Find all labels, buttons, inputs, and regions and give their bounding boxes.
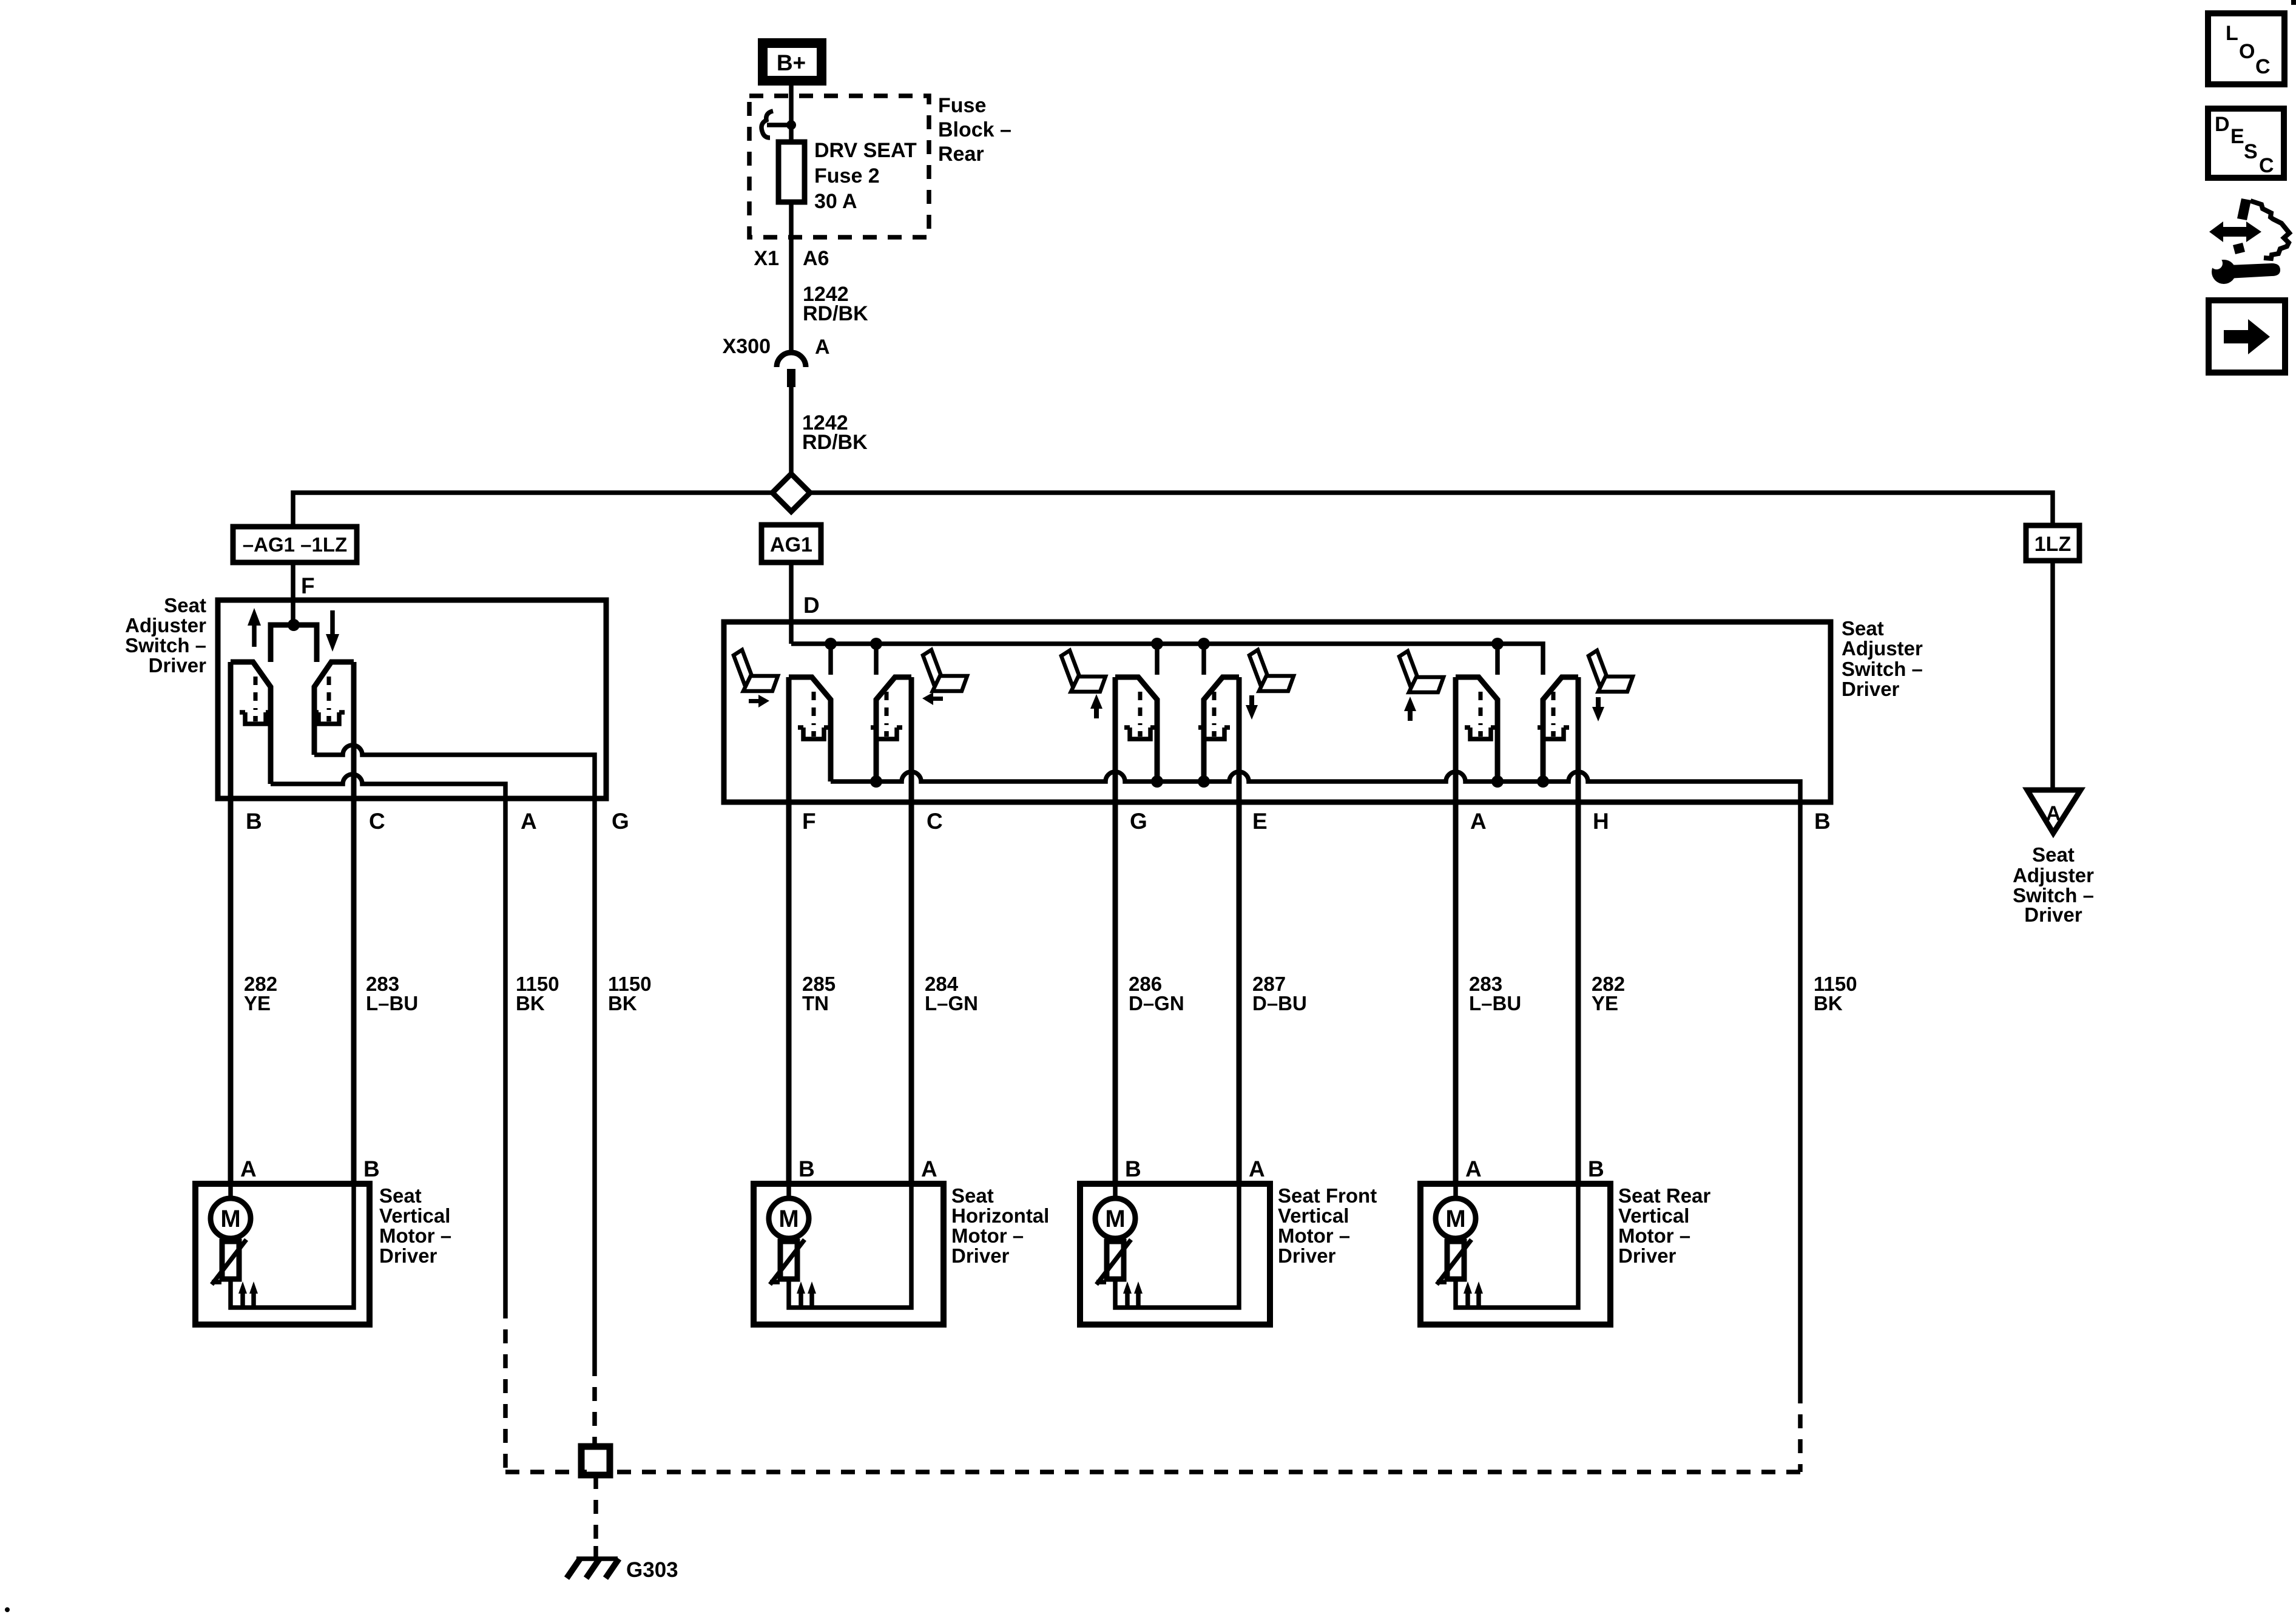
motor M1 Seat Vertical Motor - Driver bbox=[195, 1156, 380, 1325]
svg-text:L–BU: L–BU bbox=[1469, 992, 1521, 1014]
wire label 286 D-GN bbox=[1129, 973, 1184, 1014]
svg-text:E: E bbox=[2230, 125, 2244, 148]
svg-text:F: F bbox=[301, 573, 315, 598]
seat icon front up bbox=[1061, 650, 1106, 692]
svg-text:C: C bbox=[2255, 55, 2271, 78]
up arrow bbox=[248, 608, 261, 647]
svg-text:Driver: Driver bbox=[1278, 1244, 1336, 1267]
svg-text:RD/BK: RD/BK bbox=[802, 431, 868, 454]
svg-text:A: A bbox=[1465, 1156, 1482, 1181]
inline connector X300 pin A bbox=[723, 335, 830, 387]
wire B+ to fuse bbox=[789, 86, 794, 142]
wire pin A dashed to ground bus bbox=[503, 1305, 508, 1472]
svg-text:Seat: Seat bbox=[164, 594, 206, 616]
wire pin F to motor M2 bbox=[786, 677, 792, 1184]
svg-text:E: E bbox=[1252, 809, 1268, 834]
page corner mark bbox=[2291, 0, 2296, 5]
svg-text:Switch –: Switch – bbox=[1842, 658, 1923, 680]
main feed bus wire bbox=[293, 493, 2053, 527]
ground splice box bbox=[581, 1447, 610, 1475]
movable contact drops bbox=[831, 644, 1497, 675]
connector -AG1 -1LZ bbox=[233, 527, 357, 562]
icon adjust hook bbox=[2233, 243, 2245, 254]
battery terminal B+ bbox=[763, 43, 822, 81]
svg-text:B: B bbox=[799, 1156, 815, 1181]
svg-text:Fuse: Fuse bbox=[938, 94, 986, 117]
svg-text:C: C bbox=[2259, 154, 2274, 177]
down arrow bbox=[326, 610, 339, 652]
svg-text:Adjuster: Adjuster bbox=[1842, 637, 1923, 660]
switch contact A (pentagon) bbox=[1456, 677, 1497, 781]
svg-text:B: B bbox=[246, 809, 262, 834]
wire pin G dashed to ground bus bbox=[592, 1362, 597, 1463]
svg-text:BK: BK bbox=[516, 992, 545, 1014]
connector label X1 A6 bbox=[754, 247, 829, 270]
svg-text:Seat: Seat bbox=[2032, 843, 2075, 866]
seat icon front down bbox=[1249, 650, 1294, 691]
switch contact down (pentagon) bbox=[314, 662, 354, 755]
seat icon forward bbox=[734, 650, 778, 691]
svg-text:Motor –: Motor – bbox=[379, 1224, 451, 1247]
label Fuse Block - Rear bbox=[938, 94, 1011, 166]
left switch box outline bbox=[218, 600, 606, 798]
dashed wire A to splice bbox=[505, 1470, 587, 1474]
svg-text:Motor –: Motor – bbox=[951, 1224, 1024, 1247]
switch contact H (pentagon) bbox=[1543, 677, 1578, 781]
switch contact F (pentagon) bbox=[789, 677, 831, 781]
svg-text:A: A bbox=[815, 336, 830, 359]
wire pin E to motor M3 bbox=[1237, 677, 1242, 1184]
seat icon rear down bbox=[1589, 650, 1633, 692]
svg-text:C: C bbox=[927, 809, 943, 834]
wire fuse to connector X300 bbox=[789, 202, 794, 353]
off-page triangle pin A bbox=[2027, 790, 2081, 833]
wire label 1150 BK bbox=[1814, 973, 1857, 1014]
svg-text:Motor –: Motor – bbox=[1278, 1224, 1350, 1247]
svg-text:X1: X1 bbox=[754, 247, 779, 270]
wire label 283 L-BU bbox=[1469, 973, 1521, 1014]
svg-text:AG1: AG1 bbox=[770, 533, 812, 556]
svg-text:Fuse 2: Fuse 2 bbox=[814, 164, 880, 187]
svg-text:Switch –: Switch – bbox=[125, 634, 206, 657]
wire label 282 YE bbox=[244, 973, 277, 1014]
wire pin B dashed to ground bus bbox=[604, 1389, 1800, 1472]
svg-text:Driver: Driver bbox=[149, 654, 207, 677]
svg-text:BK: BK bbox=[608, 992, 637, 1014]
svg-text:Seat Front: Seat Front bbox=[1278, 1184, 1377, 1207]
svg-text:Adjuster: Adjuster bbox=[2013, 864, 2094, 886]
switch common prongs bbox=[271, 625, 317, 662]
fuse DRV SEAT Fuse 2 30 A bbox=[778, 142, 805, 202]
svg-text:L: L bbox=[2226, 22, 2238, 45]
svg-text:L–BU: L–BU bbox=[366, 992, 418, 1014]
svg-text:B: B bbox=[1125, 1156, 1141, 1181]
svg-text:G: G bbox=[612, 809, 629, 834]
svg-text:Seat: Seat bbox=[379, 1184, 422, 1207]
junction dot F bbox=[288, 619, 300, 631]
svg-text:Seat: Seat bbox=[951, 1184, 994, 1207]
switch contact up (pentagon) bbox=[231, 662, 271, 784]
label Seat Adjuster Switch - Driver (right of box) bbox=[1842, 617, 1923, 700]
svg-text:Driver: Driver bbox=[951, 1244, 1010, 1267]
motor M3 Seat Front Vertical Motor - Driver bbox=[1080, 1156, 1270, 1325]
wire label 1150 BK bbox=[516, 973, 559, 1014]
icon adjust double arrow bbox=[2209, 221, 2261, 242]
icon adjust bar bbox=[2237, 198, 2251, 220]
wire pin A to motor M4 bbox=[1453, 677, 1459, 1184]
fuse clip hook bbox=[761, 111, 773, 138]
svg-text:D–BU: D–BU bbox=[1252, 992, 1307, 1014]
connector AG1 bbox=[761, 525, 821, 562]
wire label 284 L-GN bbox=[925, 973, 978, 1014]
icon LOC bbox=[2208, 13, 2284, 84]
seat icon rearward bbox=[923, 650, 967, 691]
wire F into left switch bbox=[291, 562, 295, 625]
wire label 1242 RD/BK bbox=[802, 411, 868, 454]
seat icon rear up bbox=[1399, 651, 1443, 692]
arrow right bbox=[749, 695, 769, 707]
svg-text:Driver: Driver bbox=[1842, 678, 1900, 700]
contact cup bbox=[313, 712, 345, 724]
svg-text:A: A bbox=[2046, 802, 2061, 825]
svg-text:1LZ: 1LZ bbox=[2034, 533, 2071, 556]
wire X300 to splice bbox=[789, 387, 794, 474]
svg-text:Seat Rear: Seat Rear bbox=[1618, 1184, 1710, 1207]
arrow down bbox=[1246, 695, 1258, 720]
svg-text:D: D bbox=[803, 593, 820, 618]
svg-text:TN: TN bbox=[802, 992, 829, 1014]
svg-text:F: F bbox=[802, 809, 816, 834]
svg-text:B: B bbox=[1588, 1156, 1604, 1181]
svg-text:Vertical: Vertical bbox=[1278, 1204, 1349, 1227]
wire pin C to motor M2 bbox=[909, 677, 914, 1184]
svg-text:L–GN: L–GN bbox=[925, 992, 978, 1014]
svg-text:Adjuster: Adjuster bbox=[125, 614, 206, 636]
pin letters F C G E A H B bbox=[802, 809, 1831, 834]
svg-text:A: A bbox=[921, 1156, 937, 1181]
motor M2 Seat Horizontal Motor - Driver bbox=[754, 1156, 944, 1325]
wire pin G to motor M3 bbox=[1113, 677, 1118, 1184]
icon DESC bbox=[2208, 109, 2284, 178]
svg-text:G303: G303 bbox=[626, 1558, 678, 1582]
wire 1LZ to off-page bbox=[2050, 561, 2055, 790]
wire pin H to motor M4 bbox=[1576, 677, 1581, 1184]
label Seat Adjuster Switch - Driver (left) bbox=[125, 594, 206, 677]
svg-text:YE: YE bbox=[1592, 992, 1618, 1014]
wire pin B to motor bbox=[228, 662, 234, 1184]
icon wrench bbox=[2206, 254, 2280, 284]
svg-text:B: B bbox=[363, 1156, 380, 1181]
svg-text:G: G bbox=[1130, 809, 1147, 834]
junction dots on feed bus bbox=[825, 638, 837, 650]
svg-text:Driver: Driver bbox=[379, 1244, 437, 1267]
motor M4 Seat Rear Vertical Motor - Driver bbox=[1420, 1156, 1610, 1325]
ground symbol G303 bbox=[567, 1558, 678, 1582]
svg-text:Vertical: Vertical bbox=[379, 1204, 450, 1227]
svg-text:–AG1 –1LZ: –AG1 –1LZ bbox=[243, 533, 347, 556]
wire label 287 D-BU bbox=[1252, 973, 1307, 1014]
wire label 283 L-BU bbox=[366, 973, 418, 1014]
svg-text:S: S bbox=[2244, 140, 2258, 163]
switch return bus with hops to pin B bbox=[831, 772, 1800, 1389]
arrow down bbox=[1592, 697, 1604, 721]
arrow up bbox=[1404, 697, 1416, 721]
svg-text:B: B bbox=[1814, 809, 1831, 834]
splice diamond S354 bbox=[772, 474, 810, 511]
svg-text:H: H bbox=[1593, 809, 1609, 834]
svg-text:A: A bbox=[1470, 809, 1487, 834]
wire label 282 YE bbox=[1592, 973, 1625, 1014]
fuse block rear dashed box bbox=[749, 96, 929, 237]
label Seat Front Vertical Motor - Driver bbox=[1278, 1184, 1377, 1267]
svg-text:RD/BK: RD/BK bbox=[803, 302, 868, 325]
wire label 1150 BK bbox=[608, 973, 652, 1014]
svg-text:A: A bbox=[240, 1156, 257, 1181]
switch contact G (pentagon) bbox=[1115, 677, 1157, 781]
dashed wire splice to ground bbox=[593, 1475, 598, 1546]
contact cup bbox=[240, 712, 271, 724]
svg-text:Motor –: Motor – bbox=[1618, 1224, 1690, 1247]
label Seat Vertical Motor - Driver bbox=[379, 1184, 451, 1267]
center switch box outline bbox=[724, 622, 1831, 802]
fuse clip bar bbox=[767, 123, 791, 127]
wire label 1242 RD/BK bbox=[803, 283, 868, 325]
svg-text:30 A: 30 A bbox=[814, 190, 857, 213]
svg-text:C: C bbox=[369, 809, 385, 834]
svg-text:M: M bbox=[1105, 1206, 1125, 1232]
pin letters B C A G bbox=[246, 809, 629, 834]
icon adjust panel outline bbox=[2250, 201, 2289, 258]
svg-text:Horizontal: Horizontal bbox=[951, 1204, 1049, 1227]
svg-text:Seat: Seat bbox=[1842, 617, 1884, 640]
wire AG1 to center switch bbox=[789, 562, 794, 644]
svg-text:Driver: Driver bbox=[2024, 903, 2082, 926]
svg-text:A: A bbox=[1249, 1156, 1265, 1181]
label DRV SEAT Fuse 2 30 A bbox=[814, 139, 917, 213]
icon next arrow box bbox=[2209, 300, 2285, 373]
svg-text:D–GN: D–GN bbox=[1129, 992, 1184, 1014]
svg-text:YE: YE bbox=[244, 992, 271, 1014]
label Seat Adjuster Switch - Driver (right bottom) bbox=[2013, 843, 2094, 926]
connector 1LZ bbox=[2026, 525, 2079, 561]
svg-text:M: M bbox=[220, 1206, 240, 1232]
svg-text:X300: X300 bbox=[723, 335, 771, 358]
svg-text:M: M bbox=[778, 1206, 799, 1232]
svg-text:A6: A6 bbox=[803, 247, 829, 270]
wire pin C to motor bbox=[351, 662, 357, 1184]
label Seat Horizontal Motor - Driver bbox=[951, 1184, 1049, 1267]
svg-text:Rear: Rear bbox=[938, 143, 984, 166]
svg-text:A: A bbox=[521, 809, 537, 834]
wire contact to pin A with hop bbox=[271, 774, 505, 1305]
svg-text:DRV SEAT: DRV SEAT bbox=[814, 139, 917, 162]
label Seat Rear Vertical Motor - Driver bbox=[1618, 1184, 1710, 1267]
svg-text:Driver: Driver bbox=[1618, 1244, 1676, 1267]
contact dashes bbox=[327, 677, 331, 710]
wire label 285 TN bbox=[802, 973, 836, 1014]
junction dots on return bus bbox=[870, 775, 882, 788]
arrow up bbox=[1090, 694, 1102, 718]
switch contact C (pentagon) bbox=[876, 677, 911, 781]
svg-text:BK: BK bbox=[1814, 992, 1843, 1014]
switch contact E (pentagon) bbox=[1204, 677, 1239, 781]
contact dashes bbox=[254, 677, 258, 710]
svg-text:B+: B+ bbox=[777, 50, 806, 75]
svg-text:D: D bbox=[2215, 113, 2230, 136]
arrow left bbox=[922, 692, 943, 705]
svg-text:Vertical: Vertical bbox=[1618, 1204, 1689, 1227]
junction dot bbox=[786, 120, 796, 130]
switch feed bus bbox=[791, 644, 1543, 675]
wire contact to pin G with hop bbox=[314, 745, 595, 1362]
svg-text:Block –: Block – bbox=[938, 118, 1011, 141]
page corner dot bbox=[5, 1607, 10, 1612]
svg-text:O: O bbox=[2239, 40, 2255, 63]
svg-text:M: M bbox=[1445, 1206, 1465, 1232]
